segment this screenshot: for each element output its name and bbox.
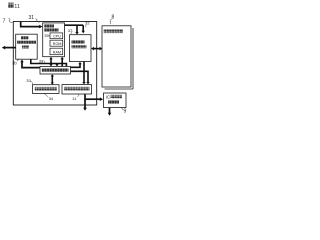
svg-text:RAM: RAM — [53, 50, 61, 54]
wire: vertical micro<->buffer controller (x51) — [50, 59, 52, 65]
svg-text:3b: 3b — [12, 61, 17, 66]
wire: buffer controller right to interface top — [71, 71, 88, 82]
microcomputer box — [43, 23, 65, 57]
wire: bold bus micro to flash controller (two drops) — [65, 24, 84, 26]
svg-text:9: 9 — [124, 108, 127, 114]
interface box — [62, 85, 92, 94]
label 34 — [44, 94, 48, 98]
svg-text:11: 11 — [14, 4, 20, 10]
svg-text:33: 33 — [26, 78, 31, 83]
wire: bold double arrow flash controller <-> flash memory — [94, 48, 101, 50]
figure title 図11 — [8, 3, 20, 10]
leader squiggle for 31 — [36, 19, 40, 23]
wire: IC card down arrow (external) — [109, 108, 111, 113]
label 9 — [121, 108, 123, 110]
wire: buffer controller to buffer memory (double arrow) — [51, 76, 53, 83]
svg-text:CPU: CPU — [53, 35, 61, 39]
svg-text:37: 37 — [68, 28, 73, 33]
buffer controller box — [40, 67, 71, 75]
wire: bold arrow from host interface to host (left, out of card) — [5, 47, 16, 49]
host interface box — [16, 34, 38, 59]
flash memory box (stacked) — [132, 28, 134, 89]
RAM box — [50, 48, 63, 55]
wire: bold L from host interface bottom to buffer controller left — [22, 62, 40, 68]
svg-text:8: 8 — [112, 14, 115, 20]
flash controller box — [70, 35, 92, 62]
wire: bold bus from outer top edge into microcomputer left — [21, 22, 40, 27]
wire: bold bus H1 from host bottom across to buffer controller — [31, 59, 67, 66]
svg-text:ROM: ROM — [53, 42, 62, 46]
svg-text:34: 34 — [49, 96, 54, 101]
leader squiggle for 7 — [9, 19, 13, 23]
outer box (controller) — [13, 22, 96, 106]
CPU box — [50, 33, 63, 39]
wire: interface to IC card (right arrow) — [85, 98, 100, 100]
svg-text:IC: IC — [106, 94, 110, 99]
wire: vertical micro<->H1 (x62) — [61, 59, 63, 66]
ROM box — [50, 40, 63, 46]
svg-text:32: 32 — [85, 21, 90, 26]
svg-text:7: 7 — [3, 18, 6, 24]
buffer memory box — [33, 85, 60, 94]
wire: flash controller bottom to interface top — [83, 62, 85, 83]
wire: interface down arrow (external) — [84, 94, 86, 108]
wire: buffer controller right to flash controller bottom — [71, 64, 80, 68]
svg-text:31: 31 — [29, 15, 35, 21]
IC card box — [104, 93, 127, 108]
wire: short drop H1 to buffer controller (x57) — [56, 64, 58, 65]
